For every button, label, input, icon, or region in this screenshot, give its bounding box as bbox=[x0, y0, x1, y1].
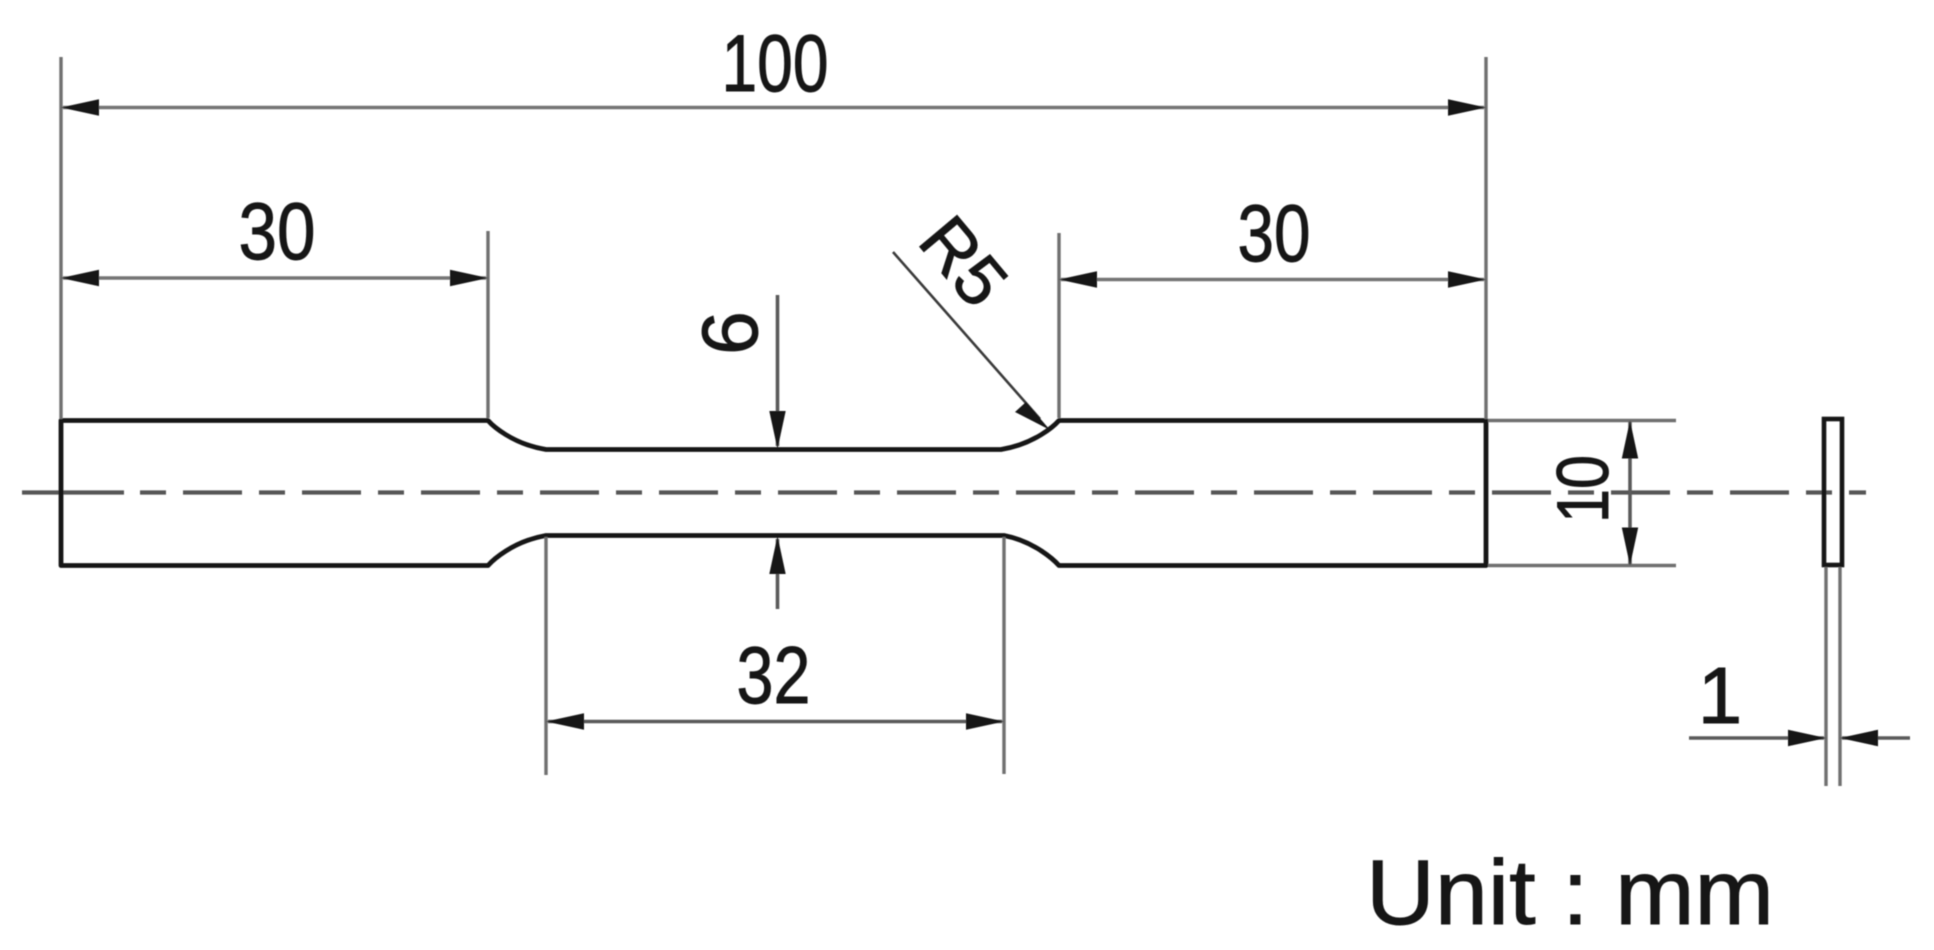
leader R5 bbox=[893, 202, 1050, 430]
dimension 100 bbox=[61, 19, 1486, 419]
svg-text:1: 1 bbox=[1698, 651, 1743, 740]
dimension 1 bbox=[1689, 567, 1910, 786]
dimension 30 right bbox=[1059, 189, 1486, 418]
dimension 30 left bbox=[61, 187, 488, 418]
svg-text:Unit : mm: Unit : mm bbox=[1366, 842, 1774, 944]
centerline bbox=[22, 490, 1866, 494]
specimen outline bbox=[61, 421, 1486, 566]
svg-text:30: 30 bbox=[239, 187, 316, 277]
dimension 32 bbox=[546, 537, 1004, 775]
svg-text:10: 10 bbox=[1543, 455, 1624, 523]
side view thickness rectangle bbox=[1824, 419, 1842, 565]
dimension 10 bbox=[1488, 421, 1676, 566]
svg-text:100: 100 bbox=[722, 19, 829, 109]
svg-text:6: 6 bbox=[685, 311, 774, 355]
svg-text:32: 32 bbox=[737, 631, 811, 721]
svg-text:30: 30 bbox=[1238, 189, 1311, 279]
dimension 6 bbox=[685, 295, 786, 609]
